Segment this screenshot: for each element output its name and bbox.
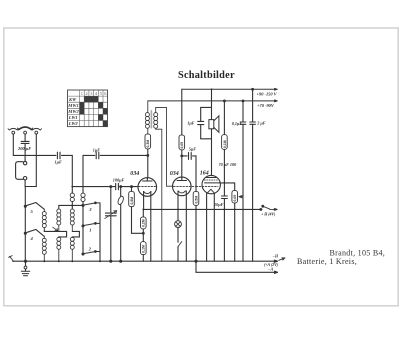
svg-text:Schaltbilder: Schaltbilder <box>178 70 235 81</box>
component value labels <box>17 91 279 271</box>
svg-text:Batterie, 1 Kreis,: Batterie, 1 Kreis, <box>297 257 357 266</box>
grid node wire V3 <box>220 183 235 191</box>
grid leak GL1 (diamond) <box>117 186 125 263</box>
grid line tube V1 <box>72 186 115 188</box>
coil L1 <box>42 209 46 230</box>
supply rail 1 +90-150V <box>182 88 277 90</box>
bypass capacitor C10 2uF <box>250 88 256 261</box>
switch S5 <box>24 203 44 210</box>
anode chain V2: resistor R5 0,05M <box>179 89 185 177</box>
svg-text:0,05: 0,05 <box>233 195 237 202</box>
table row labels <box>67 97 79 126</box>
svg-text:164: 164 <box>200 171 209 177</box>
svg-text:034: 034 <box>130 171 139 177</box>
mid bus (heater/ground return) <box>143 208 262 210</box>
coil block top wire <box>59 205 83 209</box>
tuning capacitor CV <box>105 186 117 263</box>
svg-text:100µF: 100µF <box>113 177 125 182</box>
coil L2 <box>42 236 46 261</box>
svg-text:10µF: 10µF <box>214 202 224 207</box>
wire AK1 to coil LC <box>71 202 73 209</box>
phone jack J1 <box>16 161 27 179</box>
wire A1 down <box>12 134 14 155</box>
coil LD <box>70 237 74 261</box>
junction LD-bus <box>71 260 73 262</box>
coupling capacitor C6 5000 <box>182 153 196 187</box>
wire S5 column <box>24 206 26 233</box>
coil LC <box>70 209 74 231</box>
junction AK1 top wire <box>71 205 73 207</box>
resistor R4 0,1M <box>141 242 147 262</box>
grid resistor R6 0,5M <box>193 186 199 261</box>
tap arrow <box>53 227 58 231</box>
ground symbol <box>21 260 29 276</box>
filament legs V3 <box>206 193 208 261</box>
wire switch bank right to bus <box>99 203 101 261</box>
feedback wire with capacitor C4 <box>83 154 95 156</box>
coil LA <box>57 209 61 231</box>
heater switch S7 +H <box>260 205 277 210</box>
capacitor C1 (antenna series) <box>57 152 60 159</box>
-H arrow <box>279 258 285 261</box>
resistor R1 0,5M <box>129 186 144 234</box>
junction grid-antenna corner <box>71 186 73 188</box>
hairpin link LA-LB <box>59 231 67 237</box>
svg-text:1µF: 1µF <box>187 121 195 126</box>
tube V3 164 <box>196 175 220 193</box>
wire rail1 to speaker to V3 anode <box>211 89 213 175</box>
table header digits <box>81 91 107 96</box>
svg-text:5µF: 5µF <box>189 146 197 151</box>
coil L1 tap wire <box>44 230 59 232</box>
wire S4 column to bus <box>24 233 26 261</box>
wire node down to switch S5 <box>24 187 26 207</box>
svg-text:0,2M: 0,2M <box>142 219 146 227</box>
antenna terminal A1 <box>8 128 19 134</box>
svg-text:1: 1 <box>81 91 83 96</box>
band switch table <box>68 90 108 127</box>
grid junction V2 <box>195 186 197 188</box>
bypass capacitor C9 0,1uF <box>240 100 246 261</box>
switch S1 <box>82 223 100 227</box>
capacitor C4 <box>96 152 99 159</box>
switch bank column <box>82 205 84 254</box>
junction L2-bus <box>43 260 45 262</box>
filament legs V2 <box>177 191 179 221</box>
wire grid-line corner to AK1 <box>71 187 73 194</box>
coil LB <box>57 237 61 261</box>
svg-text:Brandt, 105 B4,: Brandt, 105 B4, <box>330 249 386 258</box>
cathode legs V1 <box>143 192 145 210</box>
svg-text:KW: KW <box>68 97 77 102</box>
wire jack to node <box>24 180 26 187</box>
svg-text:1: 1 <box>89 227 91 232</box>
svg-text:+90 -150 V: +90 -150 V <box>257 91 278 96</box>
potentiometer R8 with wiper arrow <box>232 190 243 261</box>
speaker coupling: bracket with capacitor C7 1uF <box>198 107 212 138</box>
svg-text:034: 034 <box>170 171 179 177</box>
svg-text:0,1M: 0,1M <box>223 140 227 148</box>
svg-text:0,1M: 0,1M <box>142 245 146 253</box>
svg-text:+ H (4V): + H (4V) <box>261 213 276 217</box>
bus start tick <box>9 256 14 262</box>
svg-text:0,1µF: 0,1µF <box>232 121 243 126</box>
antenna terminal A2 <box>17 127 32 134</box>
feedback coil AK2 <box>81 193 85 202</box>
svg-text:−A: −A <box>268 268 273 272</box>
resistor R3 cathode 0,2M <box>141 209 147 241</box>
svg-text:1µF: 1µF <box>93 148 101 153</box>
grid capacitor C5 <box>116 183 119 189</box>
loudspeaker LS <box>209 116 219 133</box>
-A output line <box>195 260 278 273</box>
svg-text:0,5M: 0,5M <box>194 196 198 204</box>
capacitor C2 200cm (A2 series) <box>21 134 29 161</box>
transformer T1 core <box>150 111 152 128</box>
svg-text:70 µF 100: 70 µF 100 <box>219 162 238 167</box>
wire AK2 top to feedback line <box>82 155 84 193</box>
svg-text:LW1: LW1 <box>68 115 78 120</box>
on-off switch S6 <box>178 228 182 262</box>
wire C5 to tube V1 grid <box>120 186 138 188</box>
bottom bus (chassis) <box>13 260 278 262</box>
svg-text:2 µF: 2 µF <box>256 121 266 126</box>
supply rail 2 +70-90V <box>148 100 277 102</box>
switch S4 <box>24 229 44 236</box>
antenna terminal A3 <box>31 128 42 134</box>
svg-text:0,5M: 0,5M <box>130 197 134 205</box>
svg-text:MW1: MW1 <box>67 103 78 108</box>
capacitor C8 <box>221 196 227 261</box>
svg-text:0,3M: 0,3M <box>146 140 150 148</box>
wire antenna horizontal to C1 <box>13 154 56 156</box>
wire AK2 bottom to S3 <box>82 202 84 206</box>
hairpin link LC-LD <box>72 231 79 237</box>
transformer T1 primary <box>145 101 149 134</box>
svg-text:2: 2 <box>85 91 87 96</box>
node wire A3-jack <box>25 186 36 188</box>
switch S2 <box>82 251 100 255</box>
dial lamp LP1 <box>175 221 182 228</box>
wire A3 down <box>35 134 37 186</box>
svg-text:(+A (2V): (+A (2V) <box>264 263 279 267</box>
switch S3 <box>82 202 100 206</box>
tube V1 034 <box>138 178 157 197</box>
wire C1 to corner <box>62 155 73 186</box>
svg-text:MW2: MW2 <box>67 109 79 114</box>
svg-text:0,05: 0,05 <box>180 142 184 149</box>
grid feed resistor R7 0,1M from rail2 <box>222 100 228 195</box>
transformer T1 secondary <box>154 107 174 261</box>
antenna coupling coil AK1 <box>70 193 74 202</box>
svg-text:200 µF: 200 µF <box>17 146 31 151</box>
tube V2 034 <box>173 177 196 196</box>
svg-text:1µF: 1µF <box>55 160 63 165</box>
svg-text:LW2: LW2 <box>68 121 79 126</box>
junction LB-bus <box>58 260 60 262</box>
svg-text:+70 -90V: +70 -90V <box>257 103 275 108</box>
table filled cells <box>80 96 108 127</box>
resistor R2 anode 0,3M <box>145 134 151 178</box>
resistor value labels (vertical) <box>130 140 237 253</box>
